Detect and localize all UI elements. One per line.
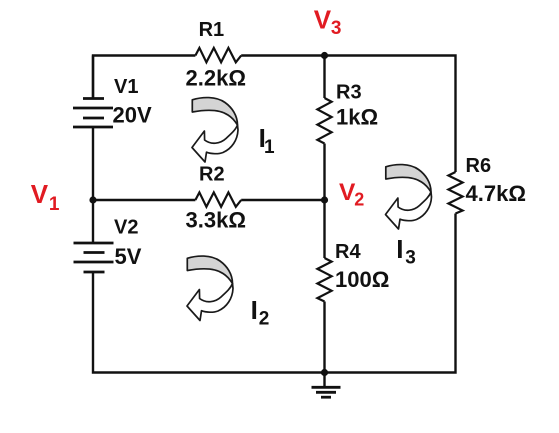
resistor R3 zigzag — [317, 98, 331, 144]
wire: left segment battery V1 bottom to V1 node — [92, 127, 94, 200]
resistor R2 zigzag — [195, 192, 241, 206]
svg-text:R6: R6 — [466, 155, 492, 177]
svg-text:3.3kΩ: 3.3kΩ — [186, 208, 246, 233]
node label V2 (red) — [339, 179, 364, 210]
battery V2 plate 2 short — [84, 251, 105, 254]
svg-text:V2: V2 — [114, 217, 138, 239]
wire: left segment V1 node down to battery V2 top — [92, 200, 94, 243]
svg-text:3: 3 — [405, 248, 416, 269]
svg-text:2: 2 — [259, 309, 270, 330]
svg-text:3: 3 — [331, 18, 342, 39]
wire: right side below R6 to bottom-right corner — [325, 214, 456, 373]
wire: left top stub into battery V1 — [92, 56, 94, 99]
battery V2 plate 1 long — [74, 242, 114, 245]
battery V2 plate 3 long — [74, 261, 114, 264]
svg-text:100Ω: 100Ω — [335, 267, 389, 292]
wire: top segment V3 node to top-right corner and down right side to R6 top — [325, 56, 456, 173]
svg-text:R4: R4 — [335, 241, 361, 263]
svg-text:R1: R1 — [199, 19, 225, 41]
battery V1 plate 3 short — [83, 117, 104, 120]
battery V2 plate 4 short — [84, 271, 105, 274]
node label V3 (red) — [314, 4, 342, 39]
svg-text:4.7kΩ: 4.7kΩ — [466, 181, 526, 206]
wire: top-left segment (V1 top to R1 left) — [93, 56, 195, 99]
battery V1 plate 2 long — [73, 107, 113, 110]
node ground junction dot — [321, 369, 328, 376]
svg-text:1: 1 — [264, 137, 275, 158]
wire: middle vertical R4 bottom to ground node — [323, 302, 325, 373]
svg-text:I: I — [251, 295, 258, 325]
svg-text:20V: 20V — [113, 103, 152, 128]
svg-text:R3: R3 — [336, 82, 362, 104]
wire: bottom segment ground node to bottom-left corner and up to V2 battery bottom — [93, 272, 325, 373]
svg-text:I: I — [396, 234, 403, 264]
svg-text:2: 2 — [354, 190, 364, 210]
mesh current arrow I3 — [386, 165, 432, 229]
wire: middle horizontal V1 node to R2 left — [93, 199, 195, 201]
node V2 junction dot — [321, 196, 328, 203]
ground — [312, 373, 341, 398]
label I1 — [259, 123, 275, 158]
label I3 — [396, 234, 416, 269]
svg-text:5V: 5V — [115, 244, 142, 269]
wire: middle vertical V2 node to R4 top — [323, 200, 325, 258]
wire: middle vertical V3 node to R3 top — [323, 56, 325, 99]
battery V1 plate 4 long — [73, 126, 113, 129]
resistor R1 zigzag — [195, 48, 241, 62]
svg-text:R2: R2 — [199, 164, 225, 186]
wire: middle vertical R3 bottom to V2 node — [323, 144, 325, 201]
resistor R6 zigzag — [448, 172, 462, 214]
svg-text:V1: V1 — [114, 76, 138, 98]
svg-text:V: V — [314, 4, 332, 34]
svg-text:V: V — [31, 179, 49, 209]
node V3 junction dot — [321, 52, 328, 59]
battery V1 plate 1 short — [83, 97, 104, 100]
mesh current arrow I1 — [192, 98, 238, 162]
svg-text:1: 1 — [49, 194, 60, 215]
label I2 — [251, 295, 270, 330]
mesh current arrow I2 — [187, 256, 233, 320]
wire: middle horizontal R2 right to V2 node — [241, 199, 324, 201]
node V1 junction dot — [89, 196, 96, 203]
svg-text:1kΩ: 1kΩ — [336, 105, 378, 130]
node label V1 (red) — [31, 179, 60, 215]
svg-text:2.2kΩ: 2.2kΩ — [186, 66, 246, 91]
resistor R4 zigzag — [317, 258, 331, 302]
wire: top segment R1 right to V3 node — [241, 54, 324, 56]
